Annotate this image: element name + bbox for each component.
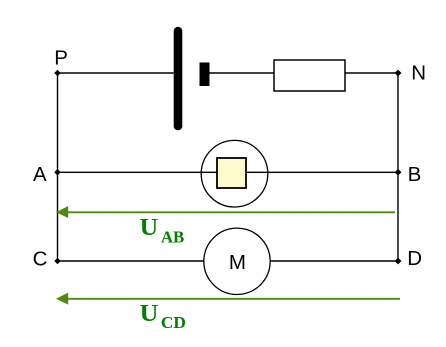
svg-text:A: A [33,163,47,186]
node A [54,169,60,176]
svg-text:U: U [140,215,159,241]
node P [54,70,60,76]
svg-text:P: P [54,46,68,69]
wire right rail N-B-D [397,73,399,261]
svg-text:CD: CD [161,313,186,332]
wire battery to resistor [210,72,275,74]
arrow U_AB line [66,211,395,213]
arrow U_CD line [66,298,400,300]
node C [54,258,60,264]
wire P to battery [58,72,174,74]
lamp square [217,158,246,188]
node N [395,70,402,77]
wire motor to D [270,260,398,262]
svg-text:N: N [411,61,426,84]
wire left rail P-A-C [57,73,59,261]
battery short plate [200,63,210,87]
motor M circle [204,228,270,294]
arrow U_CD head [56,293,68,305]
node D [395,258,402,265]
svg-text:AB: AB [161,228,184,247]
svg-text:U: U [140,301,159,327]
svg-text:B: B [408,163,422,186]
wire resistor to N [345,72,398,74]
svg-text:D: D [407,247,422,270]
battery long plate [174,31,183,126]
arrow U_AB head [56,206,68,218]
svg-text:M: M [229,251,246,274]
wire C to motor [58,260,205,262]
lamp circle [201,140,268,207]
svg-text:C: C [33,247,48,270]
resistor R [274,60,345,91]
node B [395,169,402,176]
wire A to B [58,171,399,173]
